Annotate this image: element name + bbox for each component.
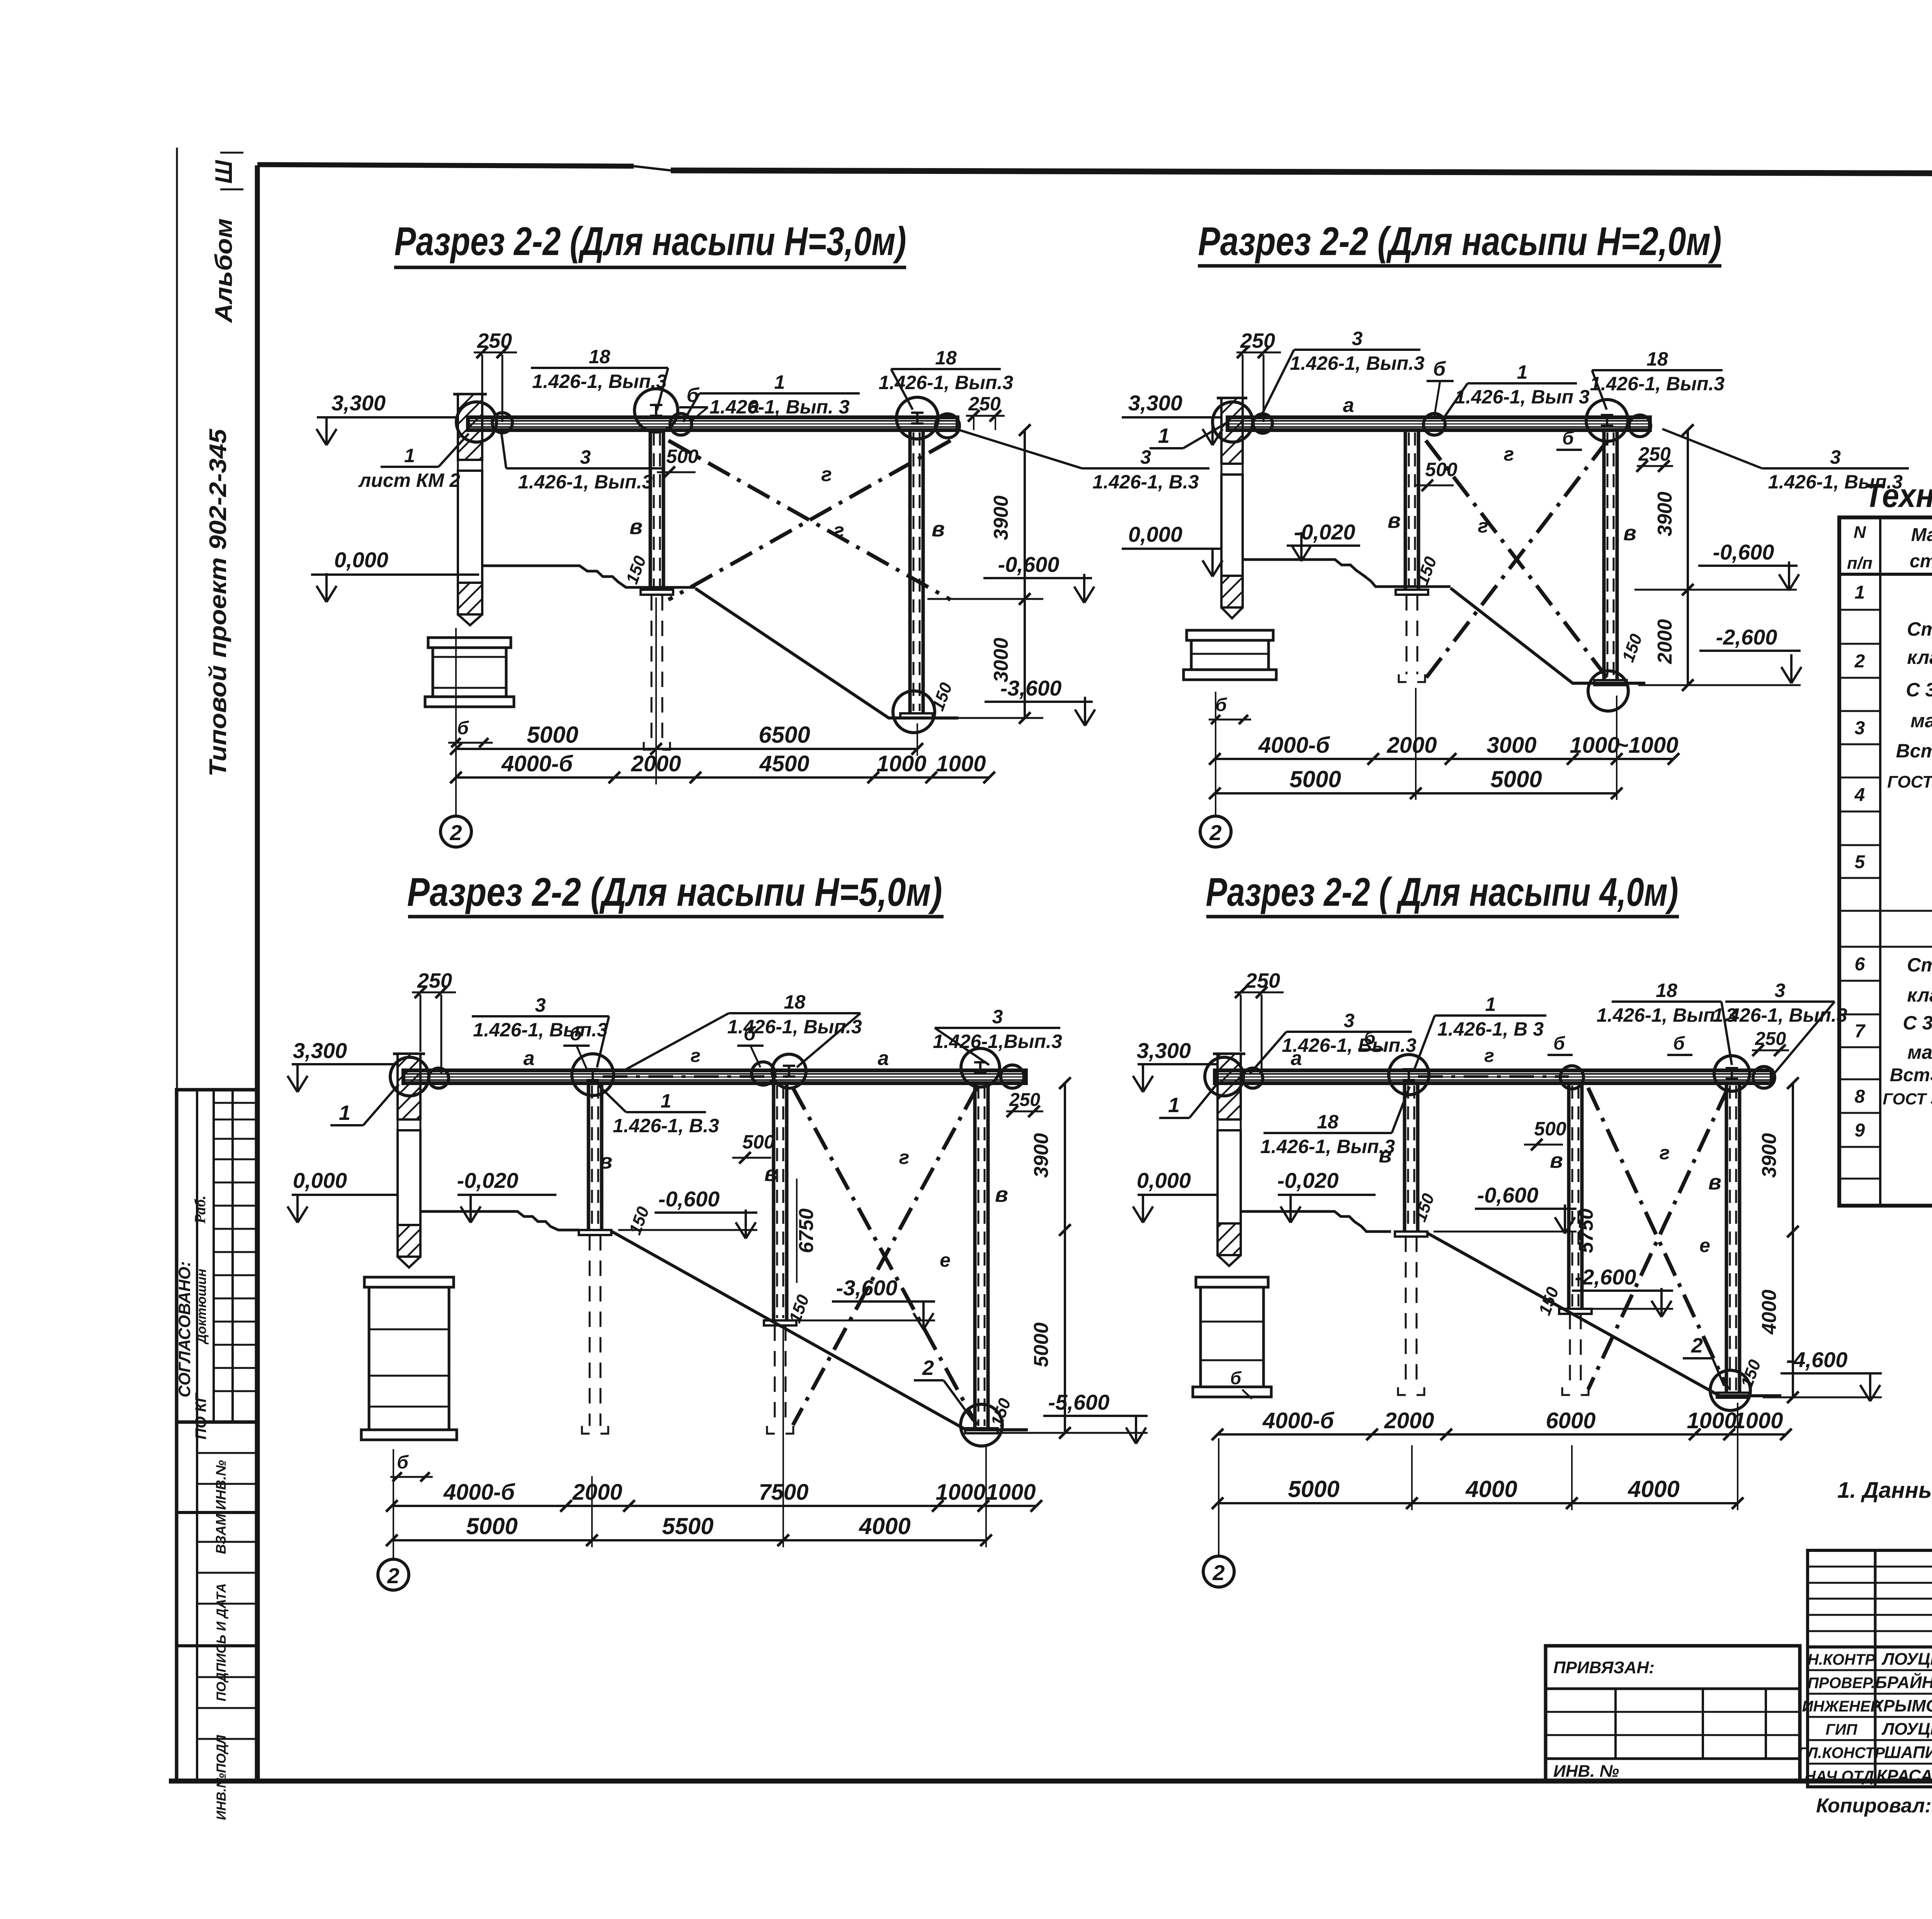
- D1 dim row 4000-б/2000/4500/1000/1000: [450, 751, 995, 783]
- svg-text:г: г: [821, 463, 832, 486]
- D4 node circle col3 top: [1560, 1066, 1583, 1089]
- D4 node circle col2 top: [1389, 1055, 1429, 1095]
- svg-text:1.426-1, В 3: 1.426-1, В 3: [1437, 1018, 1544, 1040]
- svg-text:0,000: 0,000: [1137, 1168, 1191, 1193]
- svg-text:1000: 1000: [986, 1480, 1036, 1505]
- svg-text:б: б: [1562, 428, 1574, 449]
- D2 level mark -2,600: [1638, 625, 1801, 685]
- D4 dim 150 rotated (col2 base): [1411, 1191, 1438, 1224]
- D4 anchors below col2: [1398, 1237, 1424, 1395]
- D2 vertical dim 3900/2000: [1654, 424, 1694, 691]
- table 2 title: Техническая спецификация стали: [1864, 477, 1932, 514]
- sidebar rotated label ВЗАМ.ИНВ.№: [213, 1460, 229, 1554]
- D1 node circle right column top: [896, 397, 959, 439]
- svg-text:4000: 4000: [1758, 1290, 1781, 1335]
- svg-text:БРАЙНИНА: БРАЙНИНА: [1875, 1672, 1932, 1692]
- sidebar rotated label ИНВ.№ ПОДЛ: [214, 1735, 229, 1820]
- svg-text:250: 250: [1009, 1090, 1040, 1110]
- svg-text:в: в: [932, 517, 945, 541]
- svg-text:г: г: [690, 1046, 701, 1066]
- D3 beam а: [403, 1070, 1026, 1083]
- svg-text:0,000: 0,000: [1128, 522, 1182, 546]
- svg-text:лист КМ 2: лист КМ 2: [358, 470, 460, 491]
- svg-text:6000: 6000: [1546, 1408, 1595, 1433]
- D1 dim 250 (top): [474, 329, 517, 422]
- svg-text:2: 2: [1212, 1560, 1225, 1585]
- svg-text:1.426-1, Вып.3: 1.426-1, Вып.3: [1590, 373, 1725, 395]
- svg-text:500: 500: [742, 1131, 775, 1153]
- D3 node circle col4 top: [961, 1048, 1024, 1088]
- D4 beam axis dash-dot: [1418, 1075, 1569, 1078]
- D4 label а on beam: [1291, 1047, 1302, 1070]
- D1 callout 3/1.426-1,В.3 (far right): [958, 430, 1209, 493]
- svg-text:4000-б: 4000-б: [501, 751, 573, 776]
- D4 level mark -4,600: [1763, 1347, 1882, 1401]
- svg-text:2: 2: [922, 1356, 934, 1380]
- svg-text:1.426-1, Вып. 3: 1.426-1, Вып. 3: [709, 396, 849, 418]
- svg-text:в: в: [1388, 508, 1401, 532]
- D4 callout 1 (left): [1159, 1083, 1218, 1118]
- D2 level mark -0,600: [1634, 540, 1799, 590]
- svg-text:5000: 5000: [1030, 1322, 1053, 1367]
- sheet outer edge line (left): [176, 148, 178, 1724]
- D4 dim row 5000/4000/4000: [1212, 1403, 1743, 1510]
- svg-text:п/п: п/п: [1847, 554, 1872, 573]
- svg-text:4500: 4500: [759, 751, 809, 776]
- svg-text:ИНВ. №: ИНВ. №: [1553, 1762, 1619, 1781]
- svg-text:б: б: [570, 1023, 583, 1045]
- svg-text:1: 1: [1158, 424, 1170, 447]
- D1 callout 18/1.426-1,Вып.3 (left): [531, 346, 668, 410]
- D1 axis line to circle 2: [455, 628, 457, 816]
- svg-text:3,300: 3,300: [1137, 1038, 1191, 1063]
- D4 axis circle 2: [1203, 1556, 1234, 1587]
- note 1: Данный чертеж смотри совместно с листом КМ 2: [1837, 1478, 1932, 1503]
- D4 X-brace г (col3-col4): [1588, 1088, 1728, 1390]
- D4 dim 250 (top): [1235, 969, 1284, 1074]
- svg-text:5000: 5000: [1289, 766, 1341, 792]
- table 2 header Марка стали: [1910, 525, 1932, 572]
- svg-text:9: 9: [1855, 1120, 1865, 1141]
- D1 callout 1/1.426-1,Вып.3: [683, 371, 860, 422]
- D3 label в (col2): [599, 1149, 612, 1173]
- svg-text:1.426-1, Вып.3: 1.426-1, Вып.3: [1290, 352, 1425, 374]
- svg-text:3,300: 3,300: [293, 1038, 347, 1063]
- svg-text:~1000: ~1000: [1616, 733, 1679, 758]
- D3 callout 1/1.426-1,В.3 (below beam): [598, 1085, 719, 1136]
- svg-text:5000: 5000: [466, 1513, 517, 1539]
- D2 callout 3/1.426-1,Вып.3 (left): [1260, 328, 1425, 417]
- D2 dim 250 (right): [1636, 443, 1673, 472]
- svg-text:в: в: [764, 1161, 777, 1186]
- svg-text:1.426-1, Вып 3: 1.426-1, Вып 3: [1455, 386, 1590, 408]
- D3 dim 150 rotated (col4 base): [987, 1396, 1015, 1429]
- svg-text:3,300: 3,300: [1128, 391, 1182, 415]
- D1 foundation block: [425, 638, 514, 707]
- svg-text:ПО КГ: ПО КГ: [192, 1392, 209, 1439]
- D3 axis line to circle 2: [393, 1449, 394, 1559]
- svg-text:б: б: [397, 1452, 409, 1473]
- svg-text:ШАПИРО: ШАПИРО: [1884, 1743, 1932, 1762]
- svg-text:3: 3: [1775, 980, 1786, 1001]
- svg-text:в: в: [1550, 1148, 1563, 1172]
- svg-text:а: а: [1343, 394, 1354, 417]
- D4 node circle col4 top: [1714, 1056, 1775, 1091]
- svg-text:Разрез 2-2 ( Для насыпи 4,0м): Разрез 2-2 ( Для насыпи 4,0м): [1206, 870, 1679, 915]
- D3 column 3 в: [764, 1083, 796, 1325]
- svg-text:ИНЖЕНЕР: ИНЖЕНЕР: [1802, 1698, 1881, 1715]
- svg-text:е: е: [1699, 1235, 1710, 1256]
- svg-text:N: N: [1854, 523, 1866, 542]
- D3 dim 6750 rotated (col3): [795, 1179, 818, 1283]
- svg-text:1000: 1000: [936, 751, 986, 776]
- D3 axis circle 2: [378, 1559, 409, 1590]
- svg-text:3,300: 3,300: [332, 391, 386, 415]
- D3 label е (brace): [940, 1249, 951, 1271]
- svg-text:-2,600: -2,600: [1575, 1265, 1636, 1289]
- svg-text:18: 18: [1646, 348, 1668, 370]
- svg-text:ГОСТ 380-71*: ГОСТ 380-71*: [1883, 1090, 1932, 1108]
- D2 dim 150 rotated (middle base): [1413, 554, 1440, 587]
- D2 callout 1/1.426-1,Вып 3: [1442, 361, 1590, 420]
- svg-text:4000-б: 4000-б: [443, 1480, 515, 1505]
- table 2 N numbers: [1854, 582, 1866, 1141]
- svg-text:а: а: [524, 1047, 535, 1070]
- svg-text:б: б: [1553, 1033, 1565, 1054]
- D2 callout 3/1.426-1,Вып.3 (far right): [1662, 429, 1909, 493]
- D3 anchors below col3: [767, 1325, 793, 1434]
- svg-text:Копировал: Литинова: Копировал: Литинова: [1816, 1795, 1932, 1817]
- D3 callout 1 (left): [330, 1084, 399, 1125]
- D2 dim 150 rotated (right base): [1619, 631, 1646, 665]
- D1 middle column в: [641, 430, 673, 595]
- svg-text:3000: 3000: [1486, 733, 1536, 758]
- svg-text:3: 3: [1352, 328, 1363, 349]
- svg-text:4000: 4000: [859, 1513, 910, 1539]
- D2 label г (upper): [1504, 443, 1514, 465]
- D4 callout б labels: [1358, 1028, 1692, 1055]
- D1 right column в: [900, 430, 933, 718]
- D2 node circle right column top: [1586, 400, 1651, 441]
- D1 anchor bolts below middle column: [644, 595, 670, 750]
- svg-text:1000: 1000: [1733, 1408, 1783, 1433]
- D1 wall column with hatching: [453, 394, 487, 625]
- svg-text:стали: стали: [1910, 551, 1932, 572]
- title block signature grid (small rows): [1808, 1550, 1932, 1787]
- D1 callout 3/1.426-1,Вып.3 (below beam): [501, 428, 665, 493]
- D3 level mark -5,600: [998, 1390, 1148, 1444]
- below title block: Копировал: [1816, 1795, 1932, 1817]
- svg-text:б: б: [1230, 1368, 1242, 1388]
- D4 vertical dim 3900/4000: [1758, 1077, 1799, 1403]
- svg-text:4000: 4000: [1628, 1476, 1679, 1502]
- svg-text:4000-б: 4000-б: [1258, 733, 1330, 758]
- svg-text:1.426-1, Вып.3: 1.426-1, Вып.3: [1260, 1136, 1395, 1157]
- D1 dim 150 rotated (middle base): [622, 553, 650, 587]
- D4 ground line with steps: [1241, 1211, 1391, 1232]
- svg-text:Разрез 2-2 (Для насыпи Н=2,0м): Разрез 2-2 (Для насыпи Н=2,0м): [1198, 219, 1722, 264]
- D2 node circle middle joint: [1423, 413, 1445, 435]
- svg-text:г: г: [1478, 515, 1488, 537]
- svg-text:3: 3: [535, 994, 546, 1016]
- D1 level mark 0,000: [311, 548, 479, 602]
- svg-text:ПРИВЯЗАН:: ПРИВЯЗАН:: [1553, 1658, 1655, 1677]
- table 2 header N п/п: [1847, 523, 1872, 573]
- D2 level mark 0,000: [1122, 522, 1223, 577]
- svg-text:2: 2: [1691, 1334, 1703, 1357]
- svg-text:1.426-1, Вып.3: 1.426-1, Вып.3: [473, 1019, 608, 1041]
- svg-text:Раб.: Раб.: [191, 1196, 209, 1224]
- svg-text:500: 500: [1425, 459, 1458, 480]
- D1 vertical dim 3900/3000: [990, 424, 1031, 724]
- svg-text:250: 250: [968, 393, 1001, 415]
- D2 node circle beam-wall: [1213, 402, 1272, 442]
- D3 label в (col4): [995, 1182, 1008, 1206]
- D3 dim row 4000-б/2000/7500/1000/1000: [386, 1480, 1042, 1512]
- svg-text:Альбом: Альбом: [211, 218, 237, 323]
- table 2 Марка стали group 2: [1883, 954, 1932, 1108]
- svg-text:Доктюшин: Доктюшин: [194, 1269, 209, 1345]
- D1 node circle right column base: [893, 691, 935, 733]
- svg-text:3: 3: [1830, 446, 1841, 468]
- D4 label г on beam: [1484, 1046, 1494, 1066]
- svg-text:Техническая спецификация стали: Техническая спецификация стали: [1864, 477, 1932, 514]
- D3 label г (brace): [899, 1147, 910, 1168]
- D1 axis circle 2: [440, 816, 471, 847]
- D3 level mark -0,600: [618, 1187, 757, 1239]
- D4 label в (col2): [1379, 1143, 1392, 1167]
- D4 callout 3/1.426-1,Вып.3 (rightmost): [1713, 980, 1847, 1074]
- D1 callout б: [679, 384, 708, 421]
- svg-text:-0,600: -0,600: [658, 1187, 720, 1211]
- svg-text:8: 8: [1855, 1087, 1865, 1107]
- svg-text:5750: 5750: [1575, 1208, 1597, 1253]
- D1 level mark 3,300: [316, 391, 456, 445]
- svg-text:С 38/23: С 38/23: [1906, 679, 1932, 701]
- D4 column 4 в (right): [1717, 1083, 1749, 1398]
- svg-text:5000: 5000: [527, 722, 578, 748]
- drawing 4 title: Разрез 2-2 (Для насыпи 4,0м): [1206, 870, 1679, 917]
- D1 dim 150 rotated (right base): [929, 680, 956, 713]
- svg-text:ВстЗ кп2: ВстЗ кп2: [1890, 1065, 1932, 1085]
- svg-text:2000: 2000: [572, 1480, 622, 1505]
- ПРИВЯЗАН block: [1546, 1646, 1800, 1781]
- D2 label а on beam: [1343, 394, 1354, 417]
- D1 dim б below foundation: [448, 718, 493, 747]
- svg-text:-0,600: -0,600: [1713, 540, 1774, 564]
- D2 label в (middle): [1388, 508, 1401, 532]
- D3 column 2 в: [579, 1083, 611, 1235]
- svg-text:СОГЛАСОВАНО:: СОГЛАСОВАНО:: [175, 1261, 194, 1398]
- D2 callout б (upper): [1427, 358, 1454, 417]
- D4 callout 3/1.426-1,Вып.3 (left): [1250, 1010, 1417, 1073]
- D4 dim 250 (right): [1752, 1029, 1789, 1056]
- D2 axis circle 2: [1200, 816, 1231, 847]
- D2 axis line to circle 2: [1215, 692, 1216, 816]
- drawing 3 title: Разрез 2-2 (Для насыпи Н=5,0м): [407, 870, 944, 917]
- svg-text:3900: 3900: [1030, 1133, 1053, 1178]
- svg-text:ВЗАМ.ИНВ.№: ВЗАМ.ИНВ.№: [213, 1460, 229, 1554]
- drawing 2 title: Разрез 2-2 (Для насыпи Н=2,0м): [1198, 219, 1722, 266]
- svg-text:в: в: [599, 1149, 612, 1173]
- drawing 1 title: Разрез 2-2 (Для насыпи Н=3,0м): [394, 219, 906, 267]
- D1 label в (right column): [932, 517, 945, 541]
- D4 callout 1/1.426-1,В 3: [1414, 994, 1546, 1070]
- svg-text:1: 1: [774, 371, 785, 393]
- D2 callout б (right joint): [1556, 428, 1582, 450]
- D3 level mark 3,300: [287, 1038, 398, 1092]
- svg-text:б: б: [457, 718, 469, 738]
- D1 label в (middle column): [629, 514, 643, 539]
- svg-text:ГОСТ380-71*: ГОСТ380-71*: [1887, 772, 1932, 791]
- svg-text:Ш: Ш: [211, 160, 237, 184]
- D1 label а on beam: [748, 395, 760, 417]
- title block signature rows (roles/names): [1798, 1647, 1932, 1787]
- D4 dim 150 rotated (col3 base): [1535, 1284, 1563, 1318]
- D3 node circle beam-wall: [390, 1057, 449, 1096]
- D3 label а on beam (left): [524, 1047, 535, 1070]
- D2 wall column with hatching: [1217, 398, 1247, 618]
- svg-text:-3,600: -3,600: [836, 1276, 898, 1300]
- svg-text:2000: 2000: [1384, 1408, 1434, 1433]
- D3 vertical dim 3900/5000: [1030, 1077, 1071, 1439]
- svg-text:3900: 3900: [1654, 492, 1676, 536]
- svg-text:500: 500: [666, 446, 699, 467]
- svg-text:3: 3: [1344, 1010, 1355, 1031]
- svg-text:в: в: [629, 514, 643, 539]
- D3 node circle col4 base: [961, 1404, 1002, 1446]
- svg-text:18: 18: [589, 346, 611, 367]
- svg-text:е: е: [940, 1249, 951, 1271]
- svg-text:5000: 5000: [1288, 1476, 1339, 1502]
- svg-text:-2,600: -2,600: [1716, 625, 1777, 649]
- D2 right column в: [1594, 430, 1627, 685]
- D3 label г on beam: [690, 1046, 701, 1066]
- svg-text:18: 18: [1317, 1111, 1338, 1133]
- drawing frame top border: [257, 165, 1932, 175]
- svg-text:г: г: [833, 519, 844, 542]
- svg-text:4: 4: [1854, 785, 1865, 805]
- svg-text:3: 3: [1855, 718, 1865, 738]
- svg-text:-0,020: -0,020: [1277, 1168, 1339, 1193]
- D4 level mark -2,600: [1572, 1265, 1673, 1317]
- D1 level mark -3,600: [943, 676, 1095, 726]
- table 2 grid: [1839, 517, 1932, 1206]
- svg-text:Сталь: Сталь: [1907, 954, 1932, 976]
- D2 middle column в: [1396, 430, 1428, 595]
- D3 callout б (col3): [737, 1023, 764, 1067]
- drawing frame bottom border: [169, 1779, 1932, 1784]
- D4 level mark 3,300: [1133, 1038, 1217, 1092]
- svg-text:2000: 2000: [1654, 619, 1676, 664]
- svg-text:класса: класса: [1907, 984, 1932, 1006]
- svg-text:б: б: [1673, 1033, 1685, 1054]
- svg-text:б: б: [1364, 1028, 1376, 1048]
- D1 beam а: [468, 417, 957, 430]
- D3 dim 150 rotated (col3 base): [786, 1292, 813, 1325]
- svg-text:6750: 6750: [795, 1208, 818, 1253]
- svg-text:6: 6: [1855, 954, 1865, 975]
- svg-text:ВстЗпс6: ВстЗпс6: [1896, 740, 1932, 762]
- D2 dim 250 (top): [1236, 329, 1281, 422]
- svg-text:4000-б: 4000-б: [1262, 1408, 1335, 1433]
- svg-text:б: б: [744, 1023, 757, 1045]
- svg-text:г: г: [1660, 1142, 1670, 1164]
- svg-text:250: 250: [1638, 443, 1671, 465]
- D4 callout 18/1.426-1,Вып.3 (below beam): [1260, 1087, 1410, 1157]
- D3 level mark -0,020: [457, 1168, 556, 1223]
- sidebar rotated label ПО КГ: [192, 1392, 209, 1439]
- D2 ground line with steps: [1243, 560, 1645, 683]
- D2 label в (right): [1623, 521, 1636, 545]
- svg-text:2: 2: [1209, 820, 1221, 845]
- D3 dim row 5000/5500/4000: [386, 1329, 992, 1547]
- svg-text:ИНВ.№ПОДЛ: ИНВ.№ПОДЛ: [214, 1735, 229, 1820]
- svg-text:1000: 1000: [935, 1480, 985, 1505]
- svg-text:1000: 1000: [1687, 1408, 1736, 1433]
- D1 level mark -0,600: [927, 552, 1094, 603]
- D1 X-brace г (dash-dot): [668, 441, 951, 600]
- D1 dim row 5000/6500: [450, 597, 923, 784]
- D3 dim 150 rotated (col2 base): [626, 1204, 653, 1237]
- sidebar caption: Альбом III: [211, 153, 243, 323]
- D4 node circle col4 base: [1710, 1370, 1750, 1410]
- svg-text:Н.КОНТР: Н.КОНТР: [1808, 1651, 1875, 1668]
- svg-text:Разрез 2-2 (Для насыпи Н=5,0м): Разрез 2-2 (Для насыпи Н=5,0м): [407, 870, 942, 915]
- sidebar caption: Типовой проект 902-2-345: [205, 428, 231, 777]
- svg-text:1.426-1, Вып.3: 1.426-1, Вып.3: [532, 371, 667, 392]
- svg-text:2: 2: [1854, 651, 1865, 672]
- svg-text:в: в: [1708, 1170, 1721, 1194]
- svg-text:1.426-1, В.3: 1.426-1, В.3: [613, 1115, 719, 1136]
- svg-text:0,000: 0,000: [334, 548, 388, 572]
- svg-text:1000: 1000: [1570, 733, 1619, 758]
- D3 callout 18/1.426-1,Вып.3 (middle): [624, 991, 862, 1070]
- D3 level mark 0,000: [287, 1168, 398, 1223]
- svg-text:1: 1: [1485, 994, 1496, 1015]
- svg-text:1: 1: [1517, 361, 1528, 383]
- D3 ground slope col2->col4: [611, 1231, 1028, 1430]
- svg-text:1.426-1, Вып.3: 1.426-1, Вып.3: [1282, 1034, 1417, 1056]
- D3 anchors below col2: [582, 1235, 608, 1434]
- svg-text:250: 250: [1245, 969, 1280, 992]
- svg-text:б: б: [1215, 695, 1227, 715]
- D3 callout б (col2): [563, 1023, 590, 1070]
- D2 dim 500 (middle column): [1414, 459, 1458, 491]
- D4 callout 18/1.426-1,Вып.3 (right pair): [1597, 980, 1736, 1065]
- D2 callout 18/1.426-1,Вып.3: [1590, 348, 1725, 410]
- D4 level mark -0,600: [1434, 1183, 1577, 1233]
- svg-text:марки: марки: [1907, 1041, 1932, 1063]
- D3 dim б below foundation: [390, 1452, 433, 1482]
- svg-text:ГИП: ГИП: [1825, 1721, 1857, 1738]
- svg-text:Марка: Марка: [1911, 525, 1932, 545]
- svg-text:5000: 5000: [1490, 766, 1542, 792]
- D4 level mark -0,020: [1277, 1168, 1376, 1223]
- D3 node circles col3 top: [752, 1054, 806, 1088]
- D1 label г (upper): [821, 463, 832, 486]
- D3 level mark -3,600: [797, 1276, 935, 1329]
- D1 label г (lower): [833, 519, 844, 542]
- svg-text:Типовой проект 902-2-345: Типовой проект 902-2-345: [205, 428, 231, 777]
- D3 node circle col2 top: [572, 1054, 614, 1096]
- drawing frame left border: [255, 165, 260, 1781]
- svg-text:1: 1: [1855, 582, 1865, 603]
- svg-text:-5,600: -5,600: [1048, 1390, 1110, 1414]
- svg-text:1: 1: [1168, 1094, 1180, 1117]
- svg-text:г: г: [1484, 1046, 1494, 1066]
- svg-text:-0,600: -0,600: [998, 552, 1060, 577]
